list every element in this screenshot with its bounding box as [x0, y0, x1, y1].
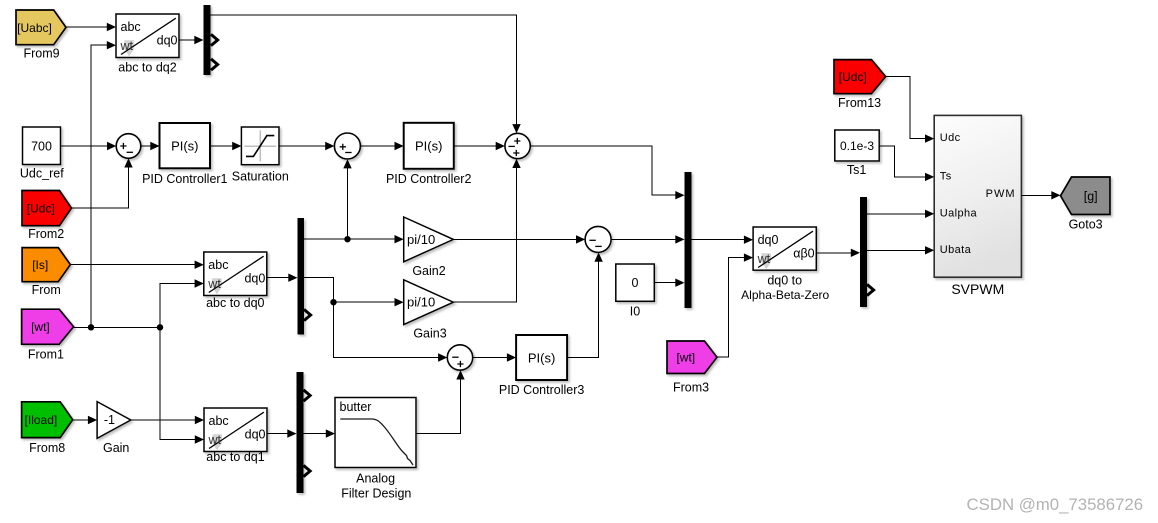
svg-text:[Is]: [Is] — [32, 258, 48, 272]
gain Gain (-1) — [97, 402, 131, 456]
block abc to dq0 — [204, 252, 267, 310]
svg-text:butter: butter — [340, 400, 372, 414]
svg-text:PWM: PWM — [986, 188, 1016, 200]
svg-text:[wt]: [wt] — [676, 351, 695, 365]
svg-text:Ualpha: Ualpha — [940, 207, 978, 219]
svg-text:PI(s): PI(s) — [528, 351, 555, 366]
svg-text:[Udc]: [Udc] — [839, 70, 867, 84]
svg-text:Analog: Analog — [356, 472, 395, 486]
svg-text:wt: wt — [757, 252, 771, 266]
mux bar (before dq0 to Alpha-Beta-Zero) — [685, 172, 692, 308]
svg-text:[Iload]: [Iload] — [25, 413, 58, 427]
svg-text:pi/10: pi/10 — [407, 295, 435, 310]
wire mux output to dq0 input of Alpha-Beta-Zero — [692, 236, 754, 244]
svg-text:From8: From8 — [29, 441, 65, 455]
wire demux out1 to Gain2 with branch up to Sum2 — [304, 159, 404, 243]
from tag From13 [Udc] — [834, 60, 886, 111]
svg-text:Gain: Gain — [103, 441, 129, 455]
wire From13 [Udc] to SVPWM Udc — [886, 77, 935, 143]
svg-text:[g]: [g] — [1084, 189, 1098, 203]
demux bar (top, after abc to dq2) — [204, 5, 218, 75]
svg-text:abc: abc — [121, 20, 141, 34]
wire demux to SVPWM Ubata — [867, 246, 934, 254]
svg-text:PID Controller2: PID Controller2 — [386, 172, 471, 186]
svg-text:abc to dq0: abc to dq0 — [206, 296, 264, 310]
svg-text:dq0: dq0 — [245, 428, 266, 442]
wire From1 [wt] horizontal trunk — [74, 324, 164, 330]
wire Sum4 to PID Controller3 — [473, 353, 516, 361]
Saturation block — [232, 127, 289, 184]
constant I0 value 0 — [616, 264, 655, 318]
PID Controller2 PI(s) — [386, 123, 471, 186]
goto tag Goto3 [g] — [1061, 177, 1111, 232]
svg-text:wt: wt — [208, 433, 222, 447]
wire From9 to abc-to-dq2 abc input — [66, 23, 116, 31]
sum junction Sum5 (--) — [585, 226, 611, 252]
svg-text:Gain2: Gain2 — [412, 264, 445, 278]
svg-text:PID Controller1: PID Controller1 — [142, 172, 227, 186]
svg-text:CSDN @m0_73586726: CSDN @m0_73586726 — [967, 495, 1144, 514]
svg-text:dq0: dq0 — [244, 272, 265, 286]
sum junction Sum4 (-+) — [447, 345, 472, 370]
wire I0 to mux input 3 — [654, 279, 684, 287]
demux bar (after abc to dq1) — [297, 372, 311, 493]
svg-text:Alpha-Beta-Zero: Alpha-Beta-Zero — [741, 288, 829, 302]
wire abc-to-dq0 output to demux — [266, 274, 298, 282]
from tag From [Is] — [22, 248, 70, 298]
from tag From1 [wt] — [22, 309, 74, 361]
wire Saturation to Sum2 — [279, 142, 334, 150]
wire abc-to-dq1 output to demux — [267, 429, 297, 437]
wire demux to Analog Filter Design — [304, 429, 336, 437]
svg-text:[wt]: [wt] — [31, 320, 50, 334]
wire Sum5 to mux input 2 — [611, 235, 684, 243]
svg-text:dq0: dq0 — [758, 233, 779, 247]
svg-text:[Udc]: [Udc] — [27, 201, 55, 215]
PID Controller3 PI(s) — [499, 335, 584, 397]
svg-text:dq0: dq0 — [157, 34, 178, 48]
wire Udc_ref to Sum1 — [61, 142, 117, 150]
wire wt branch to abc-to-dq0 wt input — [160, 279, 204, 327]
svg-text:0: 0 — [632, 276, 639, 290]
svg-text:PID Controller3: PID Controller3 — [499, 383, 584, 397]
svg-text:From13: From13 — [838, 96, 881, 110]
gain Gain2 (pi/10) — [404, 217, 454, 278]
svg-text:Filter Design: Filter Design — [341, 486, 411, 500]
svg-text:Saturation: Saturation — [232, 170, 289, 184]
wire Gain to abc-to-dq1 abc input — [131, 416, 204, 424]
svg-text:abc: abc — [209, 414, 229, 428]
svg-text:Ts1: Ts1 — [847, 163, 867, 177]
block dq0 to Alpha-Beta-Zero — [741, 227, 829, 302]
svg-text:dq0 to: dq0 to — [767, 273, 802, 287]
svg-text:0.1e-3: 0.1e-3 — [840, 139, 874, 153]
from tag From3 [wt] — [667, 341, 717, 394]
svg-text:Ubata: Ubata — [940, 244, 972, 256]
gain Gain3 (pi/10) — [404, 280, 454, 341]
svg-text:Udc: Udc — [940, 132, 961, 144]
svg-text:Gain3: Gain3 — [413, 326, 446, 340]
svg-text:abc to dq1: abc to dq1 — [206, 450, 264, 464]
svg-text:wt: wt — [207, 277, 221, 291]
watermark CSDN — [967, 495, 1144, 514]
wire Gain2 to Sum5 — [453, 235, 585, 243]
wire Analog Filter Design up to Sum4 bottom input — [416, 370, 465, 433]
wire Ts1 to SVPWM Ts — [879, 146, 934, 181]
wire demux to SVPWM Ualpha — [867, 210, 934, 218]
svg-text:From: From — [32, 283, 61, 297]
wire PID Controller1 to Saturation — [210, 142, 241, 150]
block abc to dq2 — [116, 14, 179, 74]
subsystem SVPWM — [934, 115, 1021, 296]
svg-text:From1: From1 — [28, 348, 64, 362]
svg-text:wt: wt — [120, 39, 134, 53]
block Analog Filter Design (butter) — [335, 398, 416, 501]
wire From2 [Udc] to Sum1 bottom input — [72, 158, 133, 208]
wire demux out to Sum3 top input — [211, 15, 521, 133]
svg-text:From9: From9 — [23, 47, 59, 61]
demux bar (after abc to dq0) — [298, 218, 311, 335]
svg-text:Ts: Ts — [940, 171, 952, 183]
wire Sum2 to PID Controller2 — [360, 142, 403, 150]
sum junction Sum1 (+-) — [116, 134, 141, 159]
svg-text:Udc_ref: Udc_ref — [20, 167, 64, 181]
constant Ts1 value 0.1e-3 — [835, 130, 879, 177]
wire Alpha-Beta-Zero output to demux — [816, 249, 860, 257]
svg-text:abc to dq2: abc to dq2 — [118, 60, 176, 74]
wire wt net branch up to abc-to-dq2 wt input — [91, 41, 116, 327]
constant Udc_ref 700 — [20, 127, 64, 181]
svg-text:[Uabc]: [Uabc] — [17, 21, 52, 35]
block abc to dq1 — [204, 408, 267, 464]
svg-text:-1: -1 — [104, 413, 115, 427]
svg-text:700: 700 — [31, 140, 52, 154]
wire From8 [Iload] to Gain — [73, 416, 97, 424]
wire Gain3 up to Sum3 bottom input — [453, 159, 520, 302]
sum junction Sum3 (+-+) — [505, 133, 530, 158]
wire demux out2 down to Sum4 with branch to Gain3 — [304, 278, 447, 362]
demux bar (before SVPWM) — [860, 197, 874, 307]
wire From3 [wt] to Alpha-Beta-Zero wt input — [717, 253, 753, 357]
wire Sum3 output to mux input 1 — [530, 146, 684, 199]
from tag From2 [Udc] — [22, 191, 72, 242]
wire From [Is] to abc-to-dq0 abc input — [70, 261, 203, 269]
svg-text:abc: abc — [208, 258, 228, 272]
svg-text:PI(s): PI(s) — [415, 139, 442, 154]
svg-text:SVPWM: SVPWM — [951, 281, 1004, 297]
wire abc-to-dq2 dq0 output to demux — [179, 36, 204, 44]
from tag From8 [Iload] — [22, 402, 73, 455]
wire wt branch down to abc-to-dq1 wt input — [160, 327, 204, 443]
PID Controller1 PI(s) — [142, 123, 227, 186]
wire PID Controller3 up to Sum5 bottom input — [567, 253, 603, 358]
wire PID Controller2 to Sum3 — [454, 142, 505, 150]
svg-text:Goto3: Goto3 — [1069, 218, 1103, 232]
svg-text:pi/10: pi/10 — [407, 232, 435, 247]
svg-text:PI(s): PI(s) — [171, 139, 198, 154]
svg-text:I0: I0 — [630, 304, 640, 318]
svg-text:From3: From3 — [673, 380, 709, 394]
from tag From9 [Uabc] — [16, 10, 66, 61]
wire SVPWM PWM output to Goto3 — [1021, 191, 1060, 199]
svg-text:From2: From2 — [28, 227, 64, 241]
sum junction Sum2 (+-) — [334, 133, 360, 159]
svg-text:αβ0: αβ0 — [793, 247, 814, 261]
wire Sum1 to PID Controller1 — [141, 142, 160, 150]
